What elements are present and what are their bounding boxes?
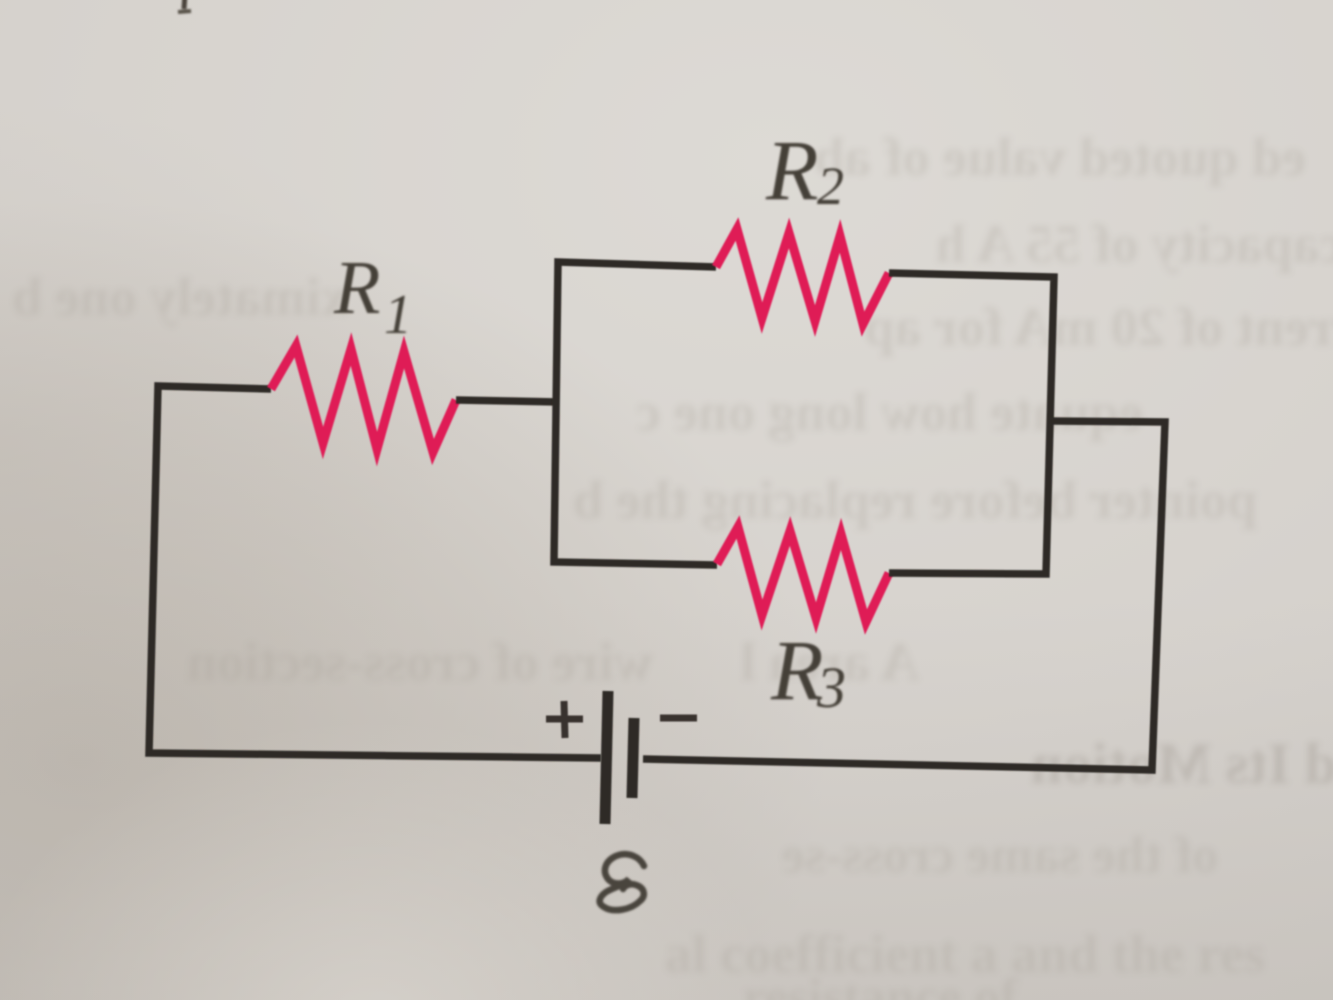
label R2: [765, 122, 844, 218]
battery negative plate (short): [632, 718, 634, 798]
svg-text:1: 1: [384, 284, 412, 346]
svg-text:R: R: [770, 622, 824, 718]
battery positive plate (long): [605, 691, 608, 824]
svg-text:ed quoted value of ab: ed quoted value of ab: [814, 127, 1306, 187]
svg-text:R: R: [333, 246, 380, 330]
label R3: [770, 622, 846, 720]
wire: outer left loop (top-left lead, left side, bottom-left run): [149, 386, 601, 758]
svg-text:pointer before replacing the b: pointer before replacing the b: [573, 470, 1257, 530]
resistor R2: [716, 229, 889, 324]
wire: R1 right lead to parallel junction: [456, 400, 558, 402]
svg-text:rrent of 20 mA for ap: rrent of 20 mA for ap: [864, 297, 1333, 357]
resistor R1: [271, 346, 456, 452]
svg-text:nd Its Motion: nd Its Motion: [1031, 731, 1333, 796]
svg-text:wire of cross-section: wire of cross-section: [187, 632, 653, 692]
battery polarity label +: [546, 701, 583, 738]
svg-text:2: 2: [817, 156, 844, 216]
battery polarity label −: [660, 715, 697, 722]
node: parallel block left vertical with branch leads: [554, 262, 717, 565]
svg-text:3: 3: [816, 655, 846, 720]
svg-text:of the same cross-se: of the same cross-se: [782, 827, 1219, 884]
wire: parallel block right vertical joining R2 and R3 leads: [889, 273, 1054, 574]
svg-text:resistance of: resistance of: [743, 969, 1019, 1000]
svg-text:R: R: [765, 122, 819, 218]
svg-text:equate how long one c: equate how long one c: [636, 382, 1143, 442]
wire: middle junction to outer right side and bottom-right run: [643, 421, 1165, 770]
resistor R3: [717, 527, 889, 622]
label EMF script-E: [600, 854, 644, 910]
label R1: [333, 246, 412, 346]
svg-text:a capacity of 55 A h: a capacity of 55 A h: [936, 214, 1333, 274]
svg-text:ximately one b: ximately one b: [12, 267, 348, 327]
